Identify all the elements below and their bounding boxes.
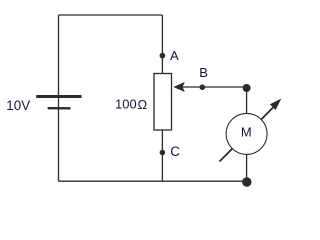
wire: top rail [59, 14, 163, 16]
battery V1 long plate (positive) [36, 95, 81, 98]
svg-text:B: B [199, 65, 208, 80]
svg-text:10V: 10V [6, 98, 30, 113]
junction dot: wiper line to motor branch [243, 84, 251, 92]
motor M1 circle [226, 113, 267, 154]
junction dot: motor branch to bottom rail [242, 177, 251, 186]
svg-text:Ω: Ω [138, 97, 148, 112]
svg-text:A: A [170, 48, 179, 63]
svg-text:100: 100 [115, 97, 137, 112]
wiper arrowhead pointing at resistor [173, 82, 185, 92]
svg-text:M: M [241, 125, 252, 140]
battery V1 short plate (negative) [48, 107, 71, 110]
variable arrowhead [270, 99, 281, 110]
node C junction dot [160, 150, 166, 156]
wire: upper right vertical to resistor [161, 15, 163, 74]
wire: left vertical battery branch [58, 15, 60, 181]
wiper arrow line from node B [182, 86, 247, 88]
wire: motor top vertical [246, 88, 248, 115]
variable arrow shaft through motor [220, 104, 277, 162]
wire: motor bottom vertical [246, 154, 248, 181]
resistor R1 100 ohm body [154, 74, 172, 131]
wire: bottom rail [59, 180, 247, 182]
wire: resistor bottom vertical [161, 130, 163, 181]
node B dot on wiper line [200, 84, 206, 90]
svg-text:C: C [170, 144, 180, 159]
node A junction dot [160, 53, 166, 59]
